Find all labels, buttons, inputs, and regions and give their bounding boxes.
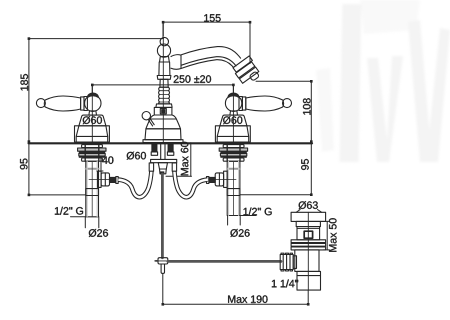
- faint background watermark: [316, 0, 450, 162]
- label 108: [303, 98, 311, 114]
- drain cap: [291, 212, 326, 221]
- label Max 60: [181, 142, 189, 175]
- left handle centreline lower: [91, 95, 93, 142]
- right handle centreline lower: [232, 95, 234, 142]
- pop-up rod: [161, 174, 164, 258]
- dimension 250 +-20: [91, 84, 235, 94]
- column base rim: [143, 140, 183, 143]
- label 1/2 G left: [55, 207, 83, 215]
- left hose: [118, 163, 153, 197]
- drain body upper: [297, 227, 320, 240]
- left valve flange stack: [78, 144, 106, 161]
- label diameter 60 centre: [127, 152, 146, 160]
- label 155: [204, 14, 220, 21]
- right valve thread box: [227, 189, 240, 196]
- dimension diameter 26 left: [71, 217, 99, 228]
- column base drum: [145, 129, 181, 140]
- spout column centreline: [162, 22, 164, 36]
- dimension 40: [97, 156, 104, 172]
- label diameter 60 left handle: [83, 116, 102, 124]
- column finial ball: [157, 44, 170, 57]
- label diameter 26 left: [89, 229, 108, 237]
- column centreline lower: [162, 38, 164, 142]
- left handle knob tip: [36, 99, 45, 108]
- label 185: [21, 74, 29, 90]
- column block with set screw: [154, 107, 172, 115]
- left handle ball cap: [87, 93, 99, 98]
- left handle ferrule: [81, 97, 88, 111]
- centre outlet: [158, 163, 167, 174]
- column bell dome: [146, 115, 181, 129]
- right handle ball cap: [228, 93, 240, 98]
- left handle bell dome: [79, 115, 106, 126]
- dimension 95 right: [240, 143, 313, 196]
- left handle grip: [44, 96, 80, 111]
- dimension diameter 26 right: [228, 216, 256, 226]
- column ring: [157, 76, 171, 80]
- drain side nut: [280, 253, 293, 271]
- right handle ferrule: [239, 97, 246, 111]
- left valve thread box: [86, 189, 99, 196]
- left handle base rect: [75, 126, 110, 142]
- pop-up rod clevis: [155, 258, 169, 264]
- left handle neck: [89, 111, 97, 115]
- drain neck: [296, 221, 320, 226]
- drain centreline: [307, 212, 309, 290]
- deck line: [29, 142, 312, 144]
- dimension Max 50: [321, 221, 330, 250]
- left valve shading: [86, 162, 88, 217]
- label 95 right: [301, 159, 309, 170]
- dimension 95 left: [28, 143, 86, 196]
- dimension 185 left: [28, 37, 164, 143]
- right hose: [172, 163, 207, 197]
- right valve shading: [228, 162, 230, 216]
- right valve side port: [207, 171, 237, 187]
- label 40: [102, 156, 113, 164]
- right handle bell skirt: [217, 126, 249, 142]
- left handle bell skirt: [76, 126, 108, 142]
- dimension 155 top: [162, 21, 252, 64]
- column collar under ball: [160, 57, 170, 62]
- column finial small ball: [160, 37, 168, 45]
- dimension 108 right: [256, 80, 313, 143]
- left valve side port: [89, 171, 118, 187]
- pop-up pin: [161, 264, 164, 273]
- label diameter 60 right handle: [223, 116, 242, 124]
- right handle knob tip: [283, 99, 292, 108]
- dimension Max 60: [166, 143, 192, 176]
- right handle base rect: [215, 126, 250, 142]
- spout aerator rings: [233, 56, 260, 83]
- drain side nut washer: [293, 256, 296, 269]
- right handle ball: [225, 95, 241, 111]
- right handle centreline: [232, 85, 234, 95]
- right valve tube: [227, 161, 240, 215]
- column shaft: [160, 79, 168, 87]
- left valve centreline: [91, 162, 93, 217]
- left valve joint line: [86, 168, 99, 170]
- pop-up knob rod: [148, 119, 154, 126]
- left handle centreline: [91, 85, 93, 95]
- drain tailpiece: [297, 271, 321, 290]
- centre manifold bar: [151, 159, 177, 162]
- label Max 190: [228, 295, 267, 303]
- column rib stack: [159, 87, 170, 104]
- column lower ring: [156, 104, 172, 108]
- right valve flange stack: [219, 144, 247, 161]
- drain washer stack: [291, 240, 326, 250]
- right valve centreline: [233, 162, 235, 216]
- label diameter 26 right: [230, 229, 249, 237]
- label 250 +-20: [174, 75, 211, 83]
- centre mounting stud right: [167, 144, 173, 155]
- label 1 1/4 inch: [272, 280, 298, 288]
- right valve joint line: [227, 168, 240, 170]
- spout root collar: [171, 55, 181, 69]
- column upper body: [159, 62, 170, 76]
- right handle grip: [246, 96, 284, 111]
- spout tube outline: [181, 47, 241, 59]
- left handle ball: [85, 95, 101, 111]
- left valve tube: [86, 161, 99, 217]
- spout inner line: [181, 57, 236, 66]
- leader lines diameter 63: [296, 210, 321, 213]
- right handle neck: [230, 111, 238, 115]
- pop-up knob: [142, 112, 150, 120]
- label Max 50: [329, 218, 337, 251]
- label diameter 63 drain: [299, 201, 318, 209]
- centre mounting stud left: [151, 144, 157, 155]
- right handle bell dome: [220, 115, 247, 126]
- dimension Max 190: [162, 274, 310, 306]
- centre rod guide tube: [161, 144, 165, 159]
- drain body lower: [295, 250, 319, 272]
- label 1/2 G right: [244, 208, 272, 216]
- label 95 left: [20, 159, 28, 170]
- horizontal drain rod: [168, 260, 281, 263]
